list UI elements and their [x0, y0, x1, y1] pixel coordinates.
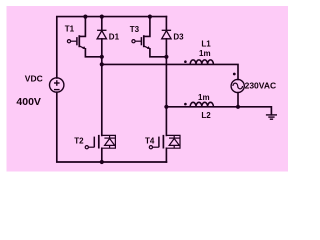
- wire: left rail top + top rail: [57, 17, 167, 78]
- svg-text:400V: 400V: [16, 96, 41, 108]
- svg-text:1m: 1m: [198, 93, 210, 102]
- svg-text:T2: T2: [74, 137, 84, 146]
- svg-text:T3: T3: [130, 25, 140, 34]
- svg-text:VDC: VDC: [25, 74, 43, 84]
- transistor T3: [132, 35, 150, 49]
- wire: T3 drain: [144, 17, 150, 37]
- node: D1 top on rail: [100, 15, 104, 19]
- wire: node B through L2 line to ground: [166, 107, 271, 115]
- svg-text:D3: D3: [173, 33, 184, 42]
- svg-text:T4: T4: [145, 137, 155, 146]
- node B: T3/D3 junction: [164, 55, 168, 59]
- source VDC: [50, 78, 64, 92]
- svg-text:L2: L2: [201, 111, 211, 120]
- transistor T2 (MOSFET with body diode): [85, 135, 115, 149]
- wire: T3 emitter to node B: [150, 49, 167, 57]
- inductor L2: [190, 102, 213, 107]
- wire: left rail lower + bottom rail: [57, 92, 167, 162]
- node: T1/D1 junction: [100, 55, 104, 59]
- node: T1 drain on top rail: [83, 15, 87, 19]
- wire: D3 branch top: [165, 17, 167, 31]
- svg-text:D1: D1: [109, 33, 120, 42]
- pink schematic background: [7, 6, 289, 172]
- ground: [266, 115, 277, 119]
- node: leg B to L2: [164, 105, 168, 109]
- wire: AC source bottom: [237, 93, 239, 107]
- wire: D1 branch top: [101, 17, 103, 31]
- inductor L1: [190, 60, 213, 65]
- node: T3 drain on rail: [148, 15, 152, 19]
- wire: T4 source to bottom rail: [165, 148, 167, 162]
- svg-text:L1: L1: [201, 39, 211, 48]
- svg-text:230VAC: 230VAC: [245, 81, 277, 91]
- wire: T2 source to bottom rail: [101, 148, 103, 162]
- node A: leg A output: [100, 62, 104, 66]
- node: T2 source on bottom rail: [100, 160, 104, 164]
- transistor T1: [67, 35, 85, 49]
- wire: T1 emitter to D1 anode: [85, 49, 101, 57]
- node: AC bottom on L2 line: [236, 105, 240, 109]
- wire: D3 anode down through node B to T4 drain: [165, 39, 167, 136]
- source 230VAC: [231, 79, 244, 92]
- svg-text:1m: 1m: [199, 49, 211, 58]
- diode D1: [97, 30, 106, 39]
- wire: node A to L1 to AC source: [102, 64, 238, 79]
- wire: node A down to T2 drain: [101, 64, 103, 135]
- wire: D1 anode down to node A: [101, 39, 103, 65]
- wire: T1 drain: [79, 17, 85, 37]
- diode D3: [162, 30, 171, 39]
- transistor T4 (MOSFET with body diode): [149, 135, 180, 149]
- svg-text:T1: T1: [65, 25, 75, 34]
